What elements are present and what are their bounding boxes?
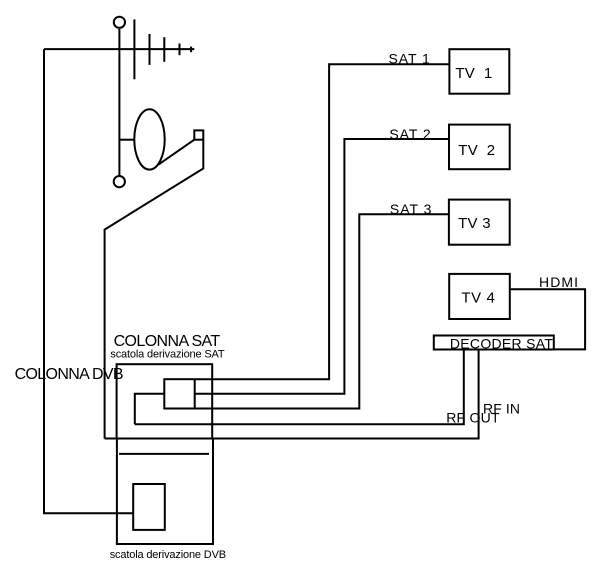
antenna element 1 (133, 19, 135, 79)
antenna element 2 (149, 34, 151, 65)
svg-text:TV 4: TV 4 (461, 290, 495, 307)
LNB arm (159, 140, 195, 165)
DVB box inner line (119, 453, 209, 455)
scatola derivazione DVB box (117, 439, 213, 545)
LNB square (194, 130, 203, 139)
antenna element 3 (163, 37, 165, 62)
satellite dish reflector (134, 109, 164, 169)
SAT 3 cable (195, 214, 449, 408)
dish feed line (119, 139, 134, 141)
mast top circle (114, 17, 125, 28)
svg-text:COLONNA SAT: COLONNA SAT (114, 333, 221, 350)
TV 2 box (449, 125, 510, 170)
splitter lower outline (135, 394, 165, 425)
antenna boom (44, 48, 194, 50)
antenna element 4 (179, 44, 181, 56)
svg-text:SAT 2: SAT 2 (389, 126, 431, 142)
svg-text:TV 3: TV 3 (458, 215, 491, 232)
DECODER SAT box (434, 336, 554, 350)
svg-text:SAT 3: SAT 3 (390, 201, 432, 217)
antenna element 5 (190, 47, 192, 53)
TV 3 box (449, 200, 510, 245)
svg-text:scatola derivazione SAT: scatola derivazione SAT (110, 349, 224, 361)
dish support pole (105, 140, 204, 439)
svg-text:COLONNA DVB: COLONNA DVB (15, 366, 124, 383)
SAT 1 cable (195, 64, 450, 379)
RF OUT cable (105, 350, 479, 439)
TV 4 box (449, 274, 510, 319)
svg-text:DECODER SAT: DECODER SAT (450, 335, 553, 351)
scatola derivazione SAT box (117, 364, 213, 438)
HDMI cable (510, 289, 585, 349)
svg-text:SAT 1: SAT 1 (389, 51, 431, 67)
svg-text:TV 2: TV 2 (458, 142, 495, 159)
COLONNA DVB cable (44, 49, 133, 513)
svg-text:TV 1: TV 1 (455, 65, 492, 82)
antenna mast (118, 29, 120, 175)
mast bottom circle (114, 176, 125, 187)
svg-text:HDMI: HDMI (539, 274, 578, 290)
RF IN cable (135, 350, 464, 425)
svg-text:scatola derivazione DVB: scatola derivazione DVB (110, 549, 226, 561)
SAT 2 cable (195, 139, 449, 394)
svg-text:RF OUT: RF OUT (446, 410, 500, 426)
SAT splitter device (164, 379, 194, 408)
DVB splitter device (133, 484, 165, 530)
TV 1 box (449, 49, 509, 93)
